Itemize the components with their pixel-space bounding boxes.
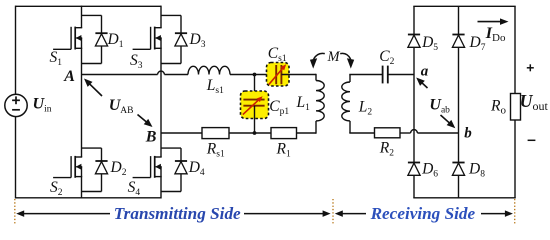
resistor R1 — [271, 128, 297, 139]
diode D4 — [175, 161, 187, 174]
wire C2 to node a — [388, 74, 414, 76]
highlight box Cs1 — [267, 63, 290, 87]
svg-text:B: B — [145, 129, 157, 146]
label D6 — [421, 160, 438, 179]
inductor L2 — [342, 82, 350, 121]
label S2 — [50, 179, 63, 198]
wire R2 to hop — [400, 132, 411, 134]
label minus (output) — [528, 139, 536, 141]
diode D8 — [452, 163, 464, 176]
label Rs1 — [206, 140, 225, 159]
diode D1 — [95, 33, 107, 46]
label plus (output) — [527, 64, 534, 71]
wire Ls1 to Cs1 — [230, 74, 276, 76]
divider dotted line middle — [332, 199, 334, 225]
label D2 — [110, 159, 127, 178]
wire L2 bottom lead — [349, 121, 374, 133]
wire Cp1 upper — [254, 75, 256, 100]
wire bottom rail (transmitter) — [16, 197, 162, 199]
wire left edge lower (Uin to bottom rail) — [15, 117, 17, 199]
arrow to node b — [441, 115, 456, 128]
wire rectifier right leg upper — [458, 6, 460, 34]
divider dotted line right — [514, 199, 516, 225]
wire bridge leg2 upper (drain S3) — [160, 6, 162, 28]
junction dot Cp1 bottom — [253, 131, 257, 135]
diode D6 — [408, 163, 420, 176]
wire Cp1 lower — [254, 106, 256, 133]
current arrow IDo — [478, 18, 509, 25]
transmitting side arrow left — [16, 210, 110, 217]
wire rectifier right leg middle — [458, 47, 460, 162]
label D4 — [188, 159, 205, 178]
resistor Ro — [511, 94, 521, 121]
wire top rail (receiver) — [413, 5, 515, 7]
svg-text:Transmitting Side: Transmitting Side — [114, 204, 241, 223]
wire rectifier right leg lower — [458, 175, 460, 198]
svg-text:Receiving Side: Receiving Side — [370, 204, 476, 223]
arrow to node A — [84, 79, 102, 97]
label L2 — [358, 99, 373, 118]
label D8 — [468, 160, 485, 179]
label L1 — [296, 94, 311, 113]
wire Rs1 to R1 — [229, 132, 271, 134]
label S1 — [50, 49, 63, 68]
label Ls1 — [206, 77, 224, 96]
capacitor Cs1 plates — [276, 65, 281, 84]
label Transmitting Side — [114, 204, 241, 223]
label C2 — [379, 48, 394, 67]
label D3 — [189, 31, 206, 50]
label Receiving Side — [370, 204, 476, 223]
wire Cs1 to L1 — [281, 74, 316, 76]
label UAB — [109, 97, 134, 116]
svg-text:a: a — [421, 63, 429, 79]
wire rectifier left leg lower — [413, 175, 415, 198]
label S3 — [130, 52, 143, 71]
label D7 — [469, 34, 486, 53]
wire rectifier left leg upper — [413, 6, 415, 34]
transmitting side arrow right — [244, 210, 331, 217]
wire L2 top lead — [349, 75, 351, 83]
divider dotted line left — [14, 199, 16, 225]
label M — [327, 49, 341, 65]
inductor L1 — [316, 81, 324, 121]
inductor Ls1 — [188, 66, 230, 74]
wire rectifier left leg middle — [413, 47, 415, 162]
wire diode loop of S3 — [161, 15, 181, 63]
wire right edge lower (Ro to bottom rail) — [514, 120, 516, 198]
wire left edge upper (Uin to top rail) — [15, 6, 17, 95]
label D5 — [421, 34, 438, 53]
node b label — [464, 125, 472, 141]
arrow to node B — [138, 115, 153, 128]
diode D3 — [175, 33, 187, 46]
label Cs1 — [268, 45, 287, 64]
highlight box Cp1 — [241, 91, 269, 119]
wire bridge leg2 lower (S4 source to bottom rail) — [160, 167, 162, 199]
label Uab — [429, 97, 450, 116]
receiving side arrow left — [335, 210, 366, 217]
transistor S2 — [53, 156, 82, 178]
label Cp1 — [269, 98, 289, 117]
capacitor Cp1 plates — [243, 100, 264, 106]
wire hop to node b — [417, 132, 458, 134]
coupling arrow left — [310, 53, 325, 68]
wire diode loop of S4 — [161, 148, 181, 191]
voltage source Uin — [5, 94, 27, 116]
label IDo — [485, 25, 506, 44]
wire bridge leg1 upper (drain S1) — [81, 6, 83, 28]
wire bridge leg1 middle (S1 source to S2 drain, node A) — [81, 38, 83, 157]
diode D2 — [95, 161, 107, 174]
receiving side arrow right — [481, 210, 513, 217]
transistor S4 — [133, 156, 162, 178]
capacitor Cp1 arrow — [243, 96, 263, 114]
resistor Rs1 — [202, 128, 229, 139]
wire node A to hop — [82, 74, 158, 76]
wire L2 top to C2 — [349, 74, 382, 76]
svg-text:M: M — [327, 49, 341, 65]
diode D5 — [408, 35, 420, 48]
capacitor Cs1 arrow — [269, 64, 286, 84]
label Uout — [520, 91, 549, 113]
capacitor C2 — [383, 66, 388, 84]
node B label — [145, 129, 157, 146]
wire bridge leg2 middle (S3 source to S4 drain, node B) — [160, 38, 162, 157]
wire hop to Ls1 — [164, 74, 188, 76]
wire top rail (transmitter) — [16, 5, 162, 7]
label R2 — [379, 140, 394, 159]
transistor S3 — [133, 27, 162, 50]
wire bottom rail (receiver) — [413, 197, 515, 199]
coupling arrow right — [340, 53, 354, 68]
wire hop over leg2 — [158, 71, 165, 74]
wire diode loop of S2 — [82, 148, 102, 191]
wire right edge upper (to Ro) — [514, 6, 516, 93]
label D1 — [107, 31, 124, 50]
wire R1 to L1 corner — [297, 121, 317, 134]
junction dot Cp1 top — [253, 73, 257, 77]
wire hop over rectifier leg — [411, 130, 418, 133]
node A label — [63, 68, 75, 85]
resistor R2 — [375, 128, 401, 138]
transistor S1 — [53, 27, 82, 50]
label Uin — [33, 95, 52, 114]
label Ro — [490, 97, 506, 116]
node a label — [421, 63, 429, 79]
wire L1 top lead — [315, 74, 317, 81]
wire node B to Rs1 — [161, 132, 202, 134]
arrow to node a — [416, 78, 427, 89]
wire diode loop of S1 — [82, 15, 102, 63]
svg-text:A: A — [63, 68, 75, 85]
label S4 — [128, 179, 141, 198]
diode D7 — [452, 35, 464, 48]
label R1 — [276, 140, 291, 159]
wire bridge leg1 lower (S2 source to bottom rail) — [81, 167, 83, 199]
svg-text:b: b — [464, 125, 472, 141]
